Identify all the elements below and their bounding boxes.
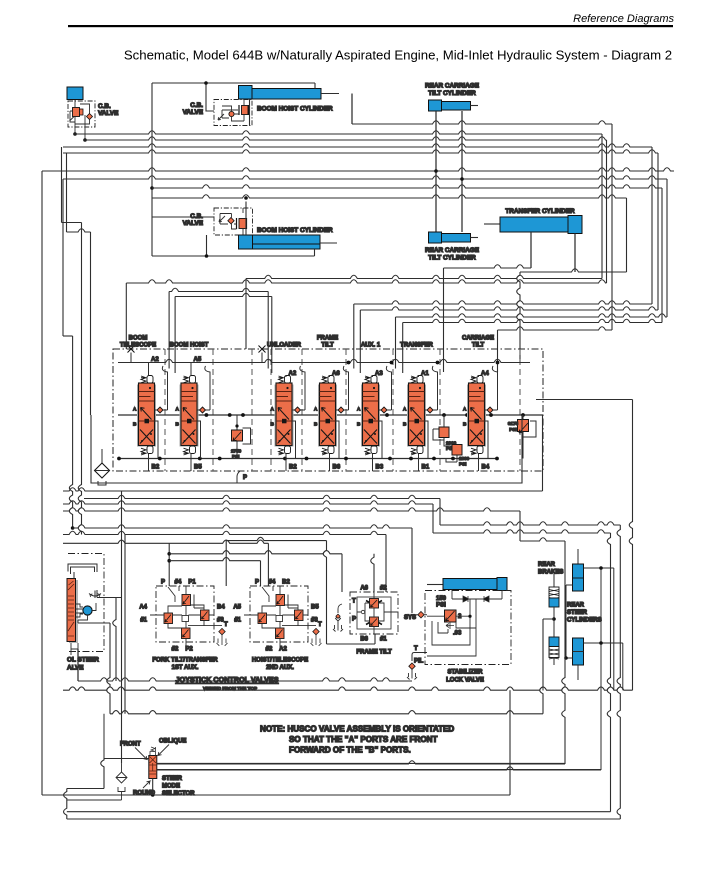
svg-text:OBLIQUE: OBLIQUE — [159, 739, 186, 745]
svg-text:B2: B2 — [282, 580, 290, 586]
svg-text:FRAME TILT: FRAME TILT — [356, 650, 392, 656]
C.B. valve C.B.2 pilot ball (circle) — [229, 111, 234, 116]
wire bottom bus 1 — [63, 687, 633, 690]
section divider — [439, 349, 441, 471]
svg-text:P: P — [255, 580, 259, 586]
svg-text:NOTE: HUSCO VALVE ASSEMBLY IS: NOTE: HUSCO VALVE ASSEMBLY IS ORIENTATED — [260, 725, 454, 734]
svg-text:REAR: REAR — [567, 603, 585, 609]
wire bus L5 — [42, 168, 674, 171]
boom hoist cylinder 2 rod — [320, 242, 337, 244]
steer mode selector spool — [149, 756, 157, 779]
svg-text:STEER: STEER — [162, 776, 183, 782]
svg-text:P: P — [352, 617, 356, 623]
wire step S3 — [63, 508, 520, 511]
svg-text:P2: P2 — [185, 647, 193, 653]
svg-text:PSI: PSI — [459, 462, 466, 467]
steer valve relief arc — [89, 591, 101, 599]
steer valve top bracket — [68, 564, 97, 598]
svg-text:B3: B3 — [376, 465, 384, 471]
section divider — [392, 349, 394, 471]
filter suction strainer — [95, 449, 110, 485]
wire U jumper 1 — [169, 288, 268, 291]
svg-text:VALVE: VALVE — [183, 220, 204, 227]
svg-text:#1: #1 — [380, 637, 387, 643]
svg-text:A4: A4 — [481, 371, 489, 377]
joystick center block — [182, 616, 189, 622]
svg-text:BOOM HOIST: BOOM HOIST — [170, 343, 209, 349]
joystick mini valve left — [164, 613, 173, 624]
stabilizer check valves — [452, 590, 502, 600]
svg-text:2800: 2800 — [459, 456, 470, 461]
svg-text:ROUND: ROUND — [133, 791, 156, 797]
wire rear brakes to vertical — [543, 619, 554, 691]
wire boom cylinder rod drop — [351, 94, 353, 125]
svg-text:TRANSFER: TRANSFER — [400, 343, 433, 349]
svg-text:A5: A5 — [194, 357, 202, 363]
joystick mini valve bottom — [276, 628, 285, 639]
frame tilt T drain diamond — [333, 604, 343, 632]
svg-text:A1: A1 — [421, 371, 429, 377]
svg-text:BOOM HOIST CYLINDER: BOOM HOIST CYLINDER — [257, 106, 333, 113]
svg-text:MODE: MODE — [162, 784, 180, 790]
svg-text:CYLINDERS: CYLINDERS — [567, 618, 602, 624]
svg-text:REAR: REAR — [538, 562, 556, 568]
svg-text:A2: A2 — [151, 357, 159, 363]
wire left chain L3 — [61, 147, 63, 223]
svg-text:PSI: PSI — [436, 603, 446, 609]
svg-text:TELESCOPE: TELESCOPE — [120, 343, 156, 349]
svg-text:SELECTOR: SELECTOR — [162, 791, 195, 797]
wire U jumper 2 — [175, 293, 272, 296]
svg-text:B1: B1 — [422, 465, 430, 471]
rear brake accumulator 2 — [549, 637, 559, 647]
joystick mini valve right — [295, 610, 304, 621]
section divider — [301, 349, 303, 471]
wire bank bottom outer — [63, 488, 543, 491]
svg-text:STEER: STEER — [567, 610, 588, 616]
svg-text:VALVE: VALVE — [183, 109, 204, 116]
rear carriage tilt cylinder 2 — [429, 232, 442, 243]
joystick mini valve bottom — [182, 628, 191, 639]
wire rear steer loop — [566, 568, 623, 770]
svg-text:FRAME: FRAME — [317, 336, 338, 342]
svg-text:CARRIAGE: CARRIAGE — [462, 336, 494, 342]
svg-text:B6: B6 — [333, 465, 341, 471]
svg-text:#1: #1 — [234, 618, 241, 624]
svg-text:UNLOADER: UNLOADER — [267, 343, 302, 349]
svg-text:FORWARD OF THE "B" PORTS.: FORWARD OF THE "B" PORTS. — [289, 746, 411, 755]
wire nest A — [540, 619, 543, 714]
wire nest F — [67, 811, 611, 813]
valve spool A4/B4 — [463, 366, 498, 471]
boom hoist cylinder 1 — [239, 86, 253, 100]
stabilizer cylinder — [427, 584, 443, 586]
svg-text:C.B.: C.B. — [190, 102, 203, 109]
joystick internal wires — [150, 595, 222, 651]
wire A riser — [162, 366, 167, 410]
valve spool A1/B1 — [403, 366, 438, 471]
wire selector drain — [152, 779, 154, 796]
svg-text:BOOM: BOOM — [129, 336, 148, 342]
wire A riser — [492, 366, 497, 410]
relief valve 3175 PSI — [508, 415, 536, 459]
svg-text:STABILIZER: STABILIZER — [448, 670, 484, 676]
wire transfer cylinder drop 1 — [530, 232, 532, 268]
wire step S1 — [84, 495, 440, 498]
valve spool A2/B2 — [133, 357, 168, 471]
junction top feed — [204, 81, 208, 85]
svg-text:A5: A5 — [233, 605, 241, 611]
joystick center block — [276, 616, 283, 622]
joystick control valve enclosure — [156, 586, 214, 642]
wire nest left closure — [64, 789, 67, 820]
wire left chain L6 — [62, 179, 64, 336]
C.B. valve C.B.2 cartridge — [242, 106, 249, 115]
svg-text:T: T — [318, 622, 322, 628]
wire bank right output — [536, 399, 633, 401]
svg-text:#4: #4 — [269, 580, 276, 586]
frame tilt mini valve lower — [370, 617, 379, 627]
C.B. valve C.B.3 port check (diamond) — [228, 218, 234, 224]
wire nest D — [509, 690, 511, 795]
C.B. valve C.B.1 port check (diamond) — [87, 114, 93, 120]
wire nest C — [157, 767, 602, 770]
C.B. valve C.B.3 cartridge — [239, 219, 247, 229]
svg-text:3175: 3175 — [508, 421, 519, 426]
svg-text:SYS: SYS — [404, 615, 416, 621]
C.B. valve C.B.2 enclosure — [214, 100, 252, 126]
wire selector lines — [157, 763, 601, 769]
C.B. valve C.B.2 internals — [218, 100, 244, 122]
svg-text:T: T — [414, 646, 418, 652]
section divider — [270, 349, 272, 471]
wire A riser — [343, 366, 348, 410]
boom hoist cylinder 2 — [239, 235, 253, 249]
wire CB3 loop — [152, 202, 315, 257]
svg-text:AUX. 1: AUX. 1 — [361, 343, 381, 349]
wire left chain L5 — [41, 171, 43, 795]
svg-text:150: 150 — [436, 596, 447, 602]
frame tilt inner box — [357, 597, 391, 629]
rear steer cylinder 2 — [573, 638, 584, 665]
wire bus L7 — [152, 185, 662, 188]
svg-text:BRAKES: BRAKES — [538, 570, 563, 576]
C.B. valve C.B.3 enclosure — [214, 208, 253, 235]
wire bus L6 — [63, 176, 667, 179]
svg-text:B2: B2 — [152, 465, 160, 471]
svg-text:#2: #2 — [266, 647, 273, 653]
frame tilt pilot valve enclosure — [350, 592, 398, 634]
svg-text:LOCK VALVE: LOCK VALVE — [446, 678, 484, 684]
joystick mini valve left — [258, 613, 267, 624]
joystick mini valve right — [201, 610, 210, 621]
joystick internal wires — [244, 595, 316, 651]
wire step S4 SYS supply — [73, 525, 412, 528]
svg-text:REAR CARRIAGE: REAR CARRIAGE — [425, 247, 480, 254]
transfer cylinder — [484, 223, 500, 225]
svg-text:#1: #1 — [140, 618, 147, 624]
wire A riser — [432, 366, 437, 410]
svg-text:A2: A2 — [279, 647, 287, 653]
relief valve 2800 PSI — [446, 445, 470, 467]
joystick mini valve top — [276, 595, 285, 606]
section divider — [212, 349, 214, 471]
svg-text:PSI: PSI — [232, 454, 239, 459]
svg-text:B6: B6 — [360, 637, 368, 643]
svg-text:C.B.: C.B. — [98, 103, 111, 110]
svg-text:A2: A2 — [289, 371, 297, 377]
boom hoist cylinder 1 rod — [321, 93, 339, 95]
svg-text:B4: B4 — [482, 465, 490, 471]
svg-text:TILT: TILT — [472, 343, 485, 349]
stabilizer pilot valve — [445, 610, 457, 622]
rear steer cylinder 1 — [577, 549, 579, 564]
svg-text:T: T — [352, 599, 356, 605]
junction dots CB1 — [73, 132, 77, 136]
svg-text:VALVE: VALVE — [98, 110, 119, 117]
svg-text:#4: #4 — [175, 580, 182, 586]
frame tilt internal wires — [357, 592, 398, 634]
node X boom telescope — [128, 346, 135, 353]
wire steer valve right — [97, 597, 121, 599]
stabilizer internal wires — [427, 599, 476, 656]
wire bank bottom inner — [91, 415, 522, 483]
svg-text:PSI: PSI — [509, 427, 516, 432]
section divider — [519, 349, 521, 471]
svg-text:REAR CARRIAGE: REAR CARRIAGE — [425, 83, 480, 90]
svg-text:P1: P1 — [188, 580, 196, 586]
svg-text:Reference Diagrams: Reference Diagrams — [573, 13, 674, 25]
svg-text:TILT CYLINDER: TILT CYLINDER — [428, 255, 476, 262]
svg-text:TILT: TILT — [321, 343, 334, 349]
wire joystick feeds — [63, 531, 386, 534]
joystick control valve enclosure — [250, 586, 308, 642]
svg-text:P: P — [243, 475, 247, 481]
svg-text:HOIST/TELESCOPE: HOIST/TELESCOPE — [252, 658, 308, 664]
wire B rail — [119, 458, 497, 460]
svg-text:A4: A4 — [139, 605, 147, 611]
valve spool A3/B3 — [357, 366, 392, 471]
wire T drain — [107, 623, 110, 714]
svg-text:Schematic, Model 644B w/Natura: Schematic, Model 644B w/Naturally Aspira… — [124, 48, 672, 63]
wire bus L4 — [63, 150, 658, 153]
svg-text:A6: A6 — [332, 371, 340, 377]
svg-text:FRONT: FRONT — [120, 742, 141, 748]
wire nest G — [67, 818, 621, 820]
svg-text:P: P — [161, 580, 165, 586]
valve spool A5/B5 — [176, 357, 211, 471]
svg-text:#2: #2 — [380, 586, 387, 592]
wire transfer cylinder drop 2 — [574, 234, 576, 273]
joystick mini valve top — [182, 595, 191, 606]
steer valve spool — [69, 580, 78, 643]
svg-text:1ST AUX.: 1ST AUX. — [172, 665, 199, 671]
wire A riser — [300, 366, 305, 410]
rear carriage tilt cylinder 1 — [429, 100, 442, 111]
steer valve bottom stub — [71, 643, 78, 655]
valve spool A2/B2 — [271, 366, 306, 471]
svg-text:A6: A6 — [360, 586, 368, 592]
accumulator (blue square) at C.B. valve 1 — [67, 87, 83, 100]
svg-text:B5: B5 — [311, 605, 319, 611]
wire P rail — [118, 359, 530, 362]
wire tank drain line — [67, 799, 122, 801]
relief valve 2900 PSI — [433, 415, 457, 451]
wire bus L2 — [84, 137, 607, 140]
svg-text:B5: B5 — [194, 465, 202, 471]
steer valve enclosure — [68, 554, 104, 652]
wire bus L8 — [152, 195, 627, 198]
svg-text:.03: .03 — [453, 631, 462, 637]
svg-text:T: T — [224, 622, 228, 628]
steer valve gerotor (blue circle) — [83, 606, 92, 615]
svg-text:SO THAT THE "A" PORTS ARE FRON: SO THAT THE "A" PORTS ARE FRONT — [289, 735, 437, 744]
rear brake accumulator 1 — [553, 570, 555, 587]
svg-text:B2: B2 — [289, 465, 297, 471]
C.B. valve C.B.3 internals — [219, 208, 243, 235]
stabilizer lock valve enclosure — [425, 591, 511, 665]
C.B. valve C.B.1 cartridge — [73, 108, 80, 117]
wire A riser — [386, 366, 391, 410]
frame tilt mini valve upper — [370, 599, 379, 609]
wire bus L1 — [74, 131, 602, 134]
wire nest B — [562, 541, 565, 764]
relief valve 2750 PSI — [231, 415, 251, 459]
wire X stubs — [131, 353, 262, 363]
svg-text:FORK TILT/TRANSFER: FORK TILT/TRANSFER — [152, 658, 218, 664]
wire A rail — [118, 414, 543, 416]
wire bus L3 — [63, 144, 652, 147]
section divider — [164, 349, 166, 471]
wire left chain L4 — [66, 153, 68, 232]
C.B. valve C.B.1 internal wires — [70, 100, 90, 140]
svg-text:TRANSFER CYLINDER: TRANSFER CYLINDER — [505, 208, 575, 215]
filter at selector — [121, 763, 123, 772]
section divider — [251, 349, 253, 471]
svg-text:PIL: PIL — [414, 659, 424, 665]
wire step S2 — [63, 501, 433, 504]
svg-text:OL STEER: OL STEER — [67, 657, 99, 664]
svg-text:ALVE: ALVE — [67, 665, 84, 672]
valve spool A6/B6 — [314, 366, 349, 471]
node X unloader — [259, 346, 266, 353]
svg-text:2ND AUX.: 2ND AUX. — [266, 665, 294, 671]
section divider — [345, 349, 347, 471]
svg-text:BOOM HOIST CYLINDER: BOOM HOIST CYLINDER — [257, 227, 333, 234]
svg-text:TILT CYLINDER: TILT CYLINDER — [428, 90, 476, 97]
header rule — [68, 25, 673, 27]
wire tilt cyl 1 down legs — [436, 111, 462, 232]
svg-text:#2: #2 — [172, 647, 179, 653]
C.B. valve C.B.1 enclosure — [68, 101, 95, 127]
svg-text:JOYSTICK CONTROL VALVES: JOYSTICK CONTROL VALVES — [175, 675, 278, 684]
wire CB2 supply — [152, 83, 315, 256]
valve bank enclosure — [113, 349, 543, 471]
svg-text:2750: 2750 — [231, 449, 242, 454]
svg-text:B4: B4 — [217, 605, 225, 611]
svg-text:A3: A3 — [375, 371, 383, 377]
steer mode selector pilot cap — [150, 747, 156, 756]
steer valve gerotor wires — [76, 603, 111, 623]
wire A riser — [205, 366, 210, 410]
